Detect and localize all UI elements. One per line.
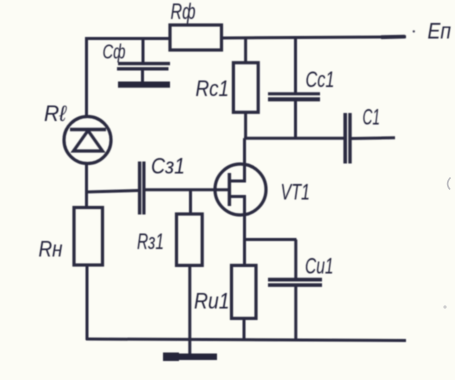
resistor Rф xyxy=(170,25,222,50)
wire: source node horizontal xyxy=(243,238,297,241)
svg-text:Cc1: Cc1 xyxy=(306,67,335,92)
wire: Rc1 top lead from bus xyxy=(244,38,247,63)
svg-text:Cз1: Cз1 xyxy=(151,154,185,179)
capacitor C1 right plate xyxy=(348,113,351,164)
wire: Cи1 top lead from source node xyxy=(294,240,297,279)
wire: Rн bottom lead to ground bus xyxy=(86,265,89,340)
wire: drain node horizontal xyxy=(244,137,344,140)
wire: left vertical from top bus down to photodiode xyxy=(85,37,88,118)
wire: bottom ground bus xyxy=(86,339,406,341)
resistor Rз1 xyxy=(177,214,203,265)
capacitor C1 left plate xyxy=(343,113,347,164)
wire: stub from top bus to Cф xyxy=(142,39,145,63)
svg-text:Cи1: Cи1 xyxy=(305,254,334,279)
transistor VT1 drain stub xyxy=(229,164,244,181)
photodiode Rl circle xyxy=(64,117,111,164)
wire: Rи1 top lead xyxy=(243,240,246,267)
resistor Rи1 xyxy=(232,265,257,318)
capacitor Cи1 bottom plate xyxy=(268,283,322,287)
transistor VT1 circle xyxy=(215,164,266,215)
wire: left vertical from photodiode to Rн xyxy=(85,162,88,208)
wire: top bus right segment to En xyxy=(222,37,407,38)
wire: Cc1 bottom lead to drain node xyxy=(294,101,297,140)
wire: Rи1 bottom lead to ground bus xyxy=(243,318,246,340)
wire: heavier ink at En wire end xyxy=(381,35,405,39)
svg-text:Rн: Rн xyxy=(39,237,63,262)
svg-text:Rф: Rф xyxy=(171,0,196,24)
wire: Cи1 bottom lead to ground bus xyxy=(294,286,297,341)
svg-text:Cф: Cф xyxy=(103,42,126,64)
wire: gate node from left column to Cз1 xyxy=(86,191,139,193)
svg-text:Rℓ: Rℓ xyxy=(44,101,67,126)
wire: stub from Cф to chassis bar xyxy=(141,69,144,82)
wire: source vertical down to source node xyxy=(243,213,246,241)
wire: Cc1 top lead from bus xyxy=(294,37,297,93)
svg-text:VT1: VT1 xyxy=(281,180,311,205)
photodiode cathode bar xyxy=(70,128,106,132)
resistor Rн xyxy=(74,208,103,266)
transistor VT1 source stub xyxy=(229,197,244,216)
wire: output after C1 xyxy=(352,136,396,140)
capacitor Cф bottom plate xyxy=(117,67,169,70)
scan artifact: faint gray speck right side xyxy=(443,305,446,308)
wire: drain vertical to drain node xyxy=(243,138,246,166)
capacitor Cи1 top plate xyxy=(268,278,322,282)
capacitor Cз1 left plate xyxy=(138,162,141,215)
capacitor Cc1 bottom plate xyxy=(268,97,320,101)
transistor VT1 channel bar xyxy=(228,173,231,206)
node En terminal dot xyxy=(413,30,415,32)
photodiode triangle xyxy=(74,131,103,152)
wire: Rc1 bottom lead to drain node xyxy=(244,112,247,139)
ground earth bar xyxy=(164,354,217,361)
svg-text:Rc1: Rc1 xyxy=(196,76,230,101)
wire: Rз1 top stub from gate wire xyxy=(189,190,192,215)
ground chassis bar under Cф xyxy=(118,82,170,88)
capacitor Cф top plate xyxy=(118,62,170,65)
resistor Rc1 xyxy=(233,63,258,113)
scan artifact: faint parenthesis mark right edge xyxy=(448,178,451,190)
capacitor Cз1 right plate xyxy=(142,162,145,215)
wire: Rз1 bottom lead through ground bus to earth xyxy=(188,265,191,354)
wire: gate lead from Cз1 to transistor xyxy=(146,188,229,191)
wire: top bus left segment xyxy=(85,37,170,40)
svg-text:Eп: Eп xyxy=(428,19,452,44)
capacitor Cc1 top plate xyxy=(268,92,320,95)
svg-text:Rи1: Rи1 xyxy=(194,289,230,314)
svg-text:C1: C1 xyxy=(363,105,381,130)
svg-text:Rз1: Rз1 xyxy=(137,229,164,254)
ground earth bar left blob xyxy=(163,353,179,362)
